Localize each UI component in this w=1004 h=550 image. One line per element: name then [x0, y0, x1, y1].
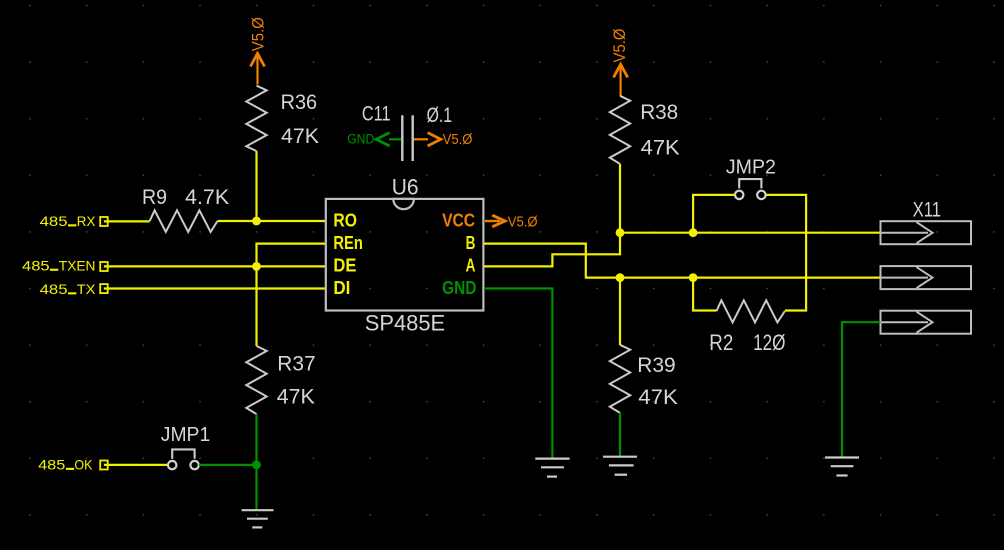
ground R39	[603, 457, 637, 475]
svg-text:R9: R9	[142, 185, 167, 209]
junction at DE line	[252, 262, 261, 271]
svg-text:DI: DI	[333, 278, 350, 298]
wire R39 top	[619, 278, 621, 345]
wire REn jog	[257, 244, 326, 267]
wire A jog up to top line	[484, 233, 620, 267]
C11 GND arrow	[376, 133, 401, 146]
net label 485_RX	[40, 213, 108, 229]
svg-text:X11: X11	[913, 198, 941, 222]
X11 pin 3	[881, 311, 972, 334]
svg-text:R39: R39	[637, 353, 675, 377]
wire R37 bottom green to ground	[255, 414, 257, 510]
svg-text:RX: RX	[77, 213, 96, 229]
junction B line R39	[616, 273, 625, 282]
wire 485_RX to R9	[104, 220, 150, 222]
svg-text:RO: RO	[333, 211, 357, 231]
svg-text:A: A	[466, 256, 476, 276]
net label 485_TXEN	[22, 257, 108, 273]
X11 pin 2	[881, 266, 972, 289]
resistor R37	[246, 346, 315, 414]
C11 V5.0 arrow	[414, 133, 441, 146]
wire R2 left to B line	[693, 278, 716, 311]
svg-text:REn: REn	[333, 233, 363, 253]
svg-text:B: B	[466, 233, 476, 253]
wire JMP2 left to top line	[693, 195, 734, 233]
wire R9 to RO	[218, 220, 326, 222]
svg-text:V5.Ø: V5.Ø	[508, 214, 538, 230]
wire 485_OK to JMP1	[104, 464, 167, 466]
wire top line to X11 pin 1	[620, 232, 881, 234]
svg-text:R2: R2	[709, 330, 733, 355]
capacitor C11 plates	[362, 102, 452, 162]
resistor R39	[610, 345, 679, 413]
svg-text:Ø.1: Ø.1	[427, 103, 452, 127]
svg-text:GND: GND	[442, 278, 476, 298]
resistor R36	[246, 86, 319, 151]
wire R36 bottom to RO junction	[255, 151, 257, 221]
svg-text:JMP1: JMP1	[161, 423, 210, 446]
svg-text:VCC: VCC	[442, 211, 475, 231]
ground chip GND	[535, 459, 569, 477]
svg-text:V5.Ø: V5.Ø	[443, 132, 473, 148]
IC U6 chip body	[326, 174, 484, 335]
svg-text:TXEN: TXEN	[59, 257, 96, 273]
svg-text:485: 485	[40, 213, 68, 229]
svg-text:OK: OK	[74, 457, 93, 473]
svg-text:R36: R36	[281, 90, 318, 114]
svg-text:485: 485	[22, 257, 50, 273]
svg-text:12Ø: 12Ø	[753, 330, 785, 355]
ground X11	[825, 458, 859, 476]
VCC supply arrow V5.0	[485, 215, 505, 227]
wire 485_TXEN to DE	[104, 265, 326, 267]
net label 485_OK	[38, 457, 108, 473]
wire R39 bottom to ground	[619, 413, 621, 457]
svg-text:47K: 47K	[277, 385, 316, 409]
svg-text:R37: R37	[277, 352, 315, 376]
svg-text:485: 485	[40, 281, 68, 297]
junction JMP2 left	[689, 228, 698, 237]
wire JMP1 right to junction	[199, 464, 257, 466]
ground JMP1	[242, 510, 274, 527]
svg-text:V5.Ø: V5.Ø	[610, 29, 629, 63]
svg-text:C11: C11	[362, 102, 391, 126]
svg-text:DE: DE	[333, 256, 356, 276]
svg-text:47K: 47K	[281, 124, 320, 148]
jumper JMP1	[161, 423, 210, 470]
supply V5.0 symbol above R38	[614, 64, 628, 96]
wire X11 pin3 to ground	[842, 322, 881, 457]
wire GND pin to ground	[484, 289, 552, 459]
wire 485_TX to DI	[104, 287, 326, 289]
resistor R38	[610, 96, 681, 164]
svg-text:4.7K: 4.7K	[185, 185, 230, 209]
X11 pin 1	[881, 221, 972, 244]
wire B jog to lower line	[484, 244, 881, 278]
junction green JMP1	[252, 461, 261, 470]
svg-text:47K: 47K	[638, 385, 678, 409]
svg-text:SP485E: SP485E	[365, 311, 446, 336]
net label 485_TX	[40, 281, 108, 297]
supply V5.0 symbol above R36	[250, 53, 264, 85]
wire JMP2 right down to R2 right	[766, 195, 806, 311]
junction R2 left	[689, 273, 698, 282]
svg-text:U6: U6	[392, 174, 419, 199]
svg-text:R38: R38	[640, 100, 678, 124]
jumper JMP2	[726, 155, 776, 199]
wire R38 to junction	[619, 164, 621, 233]
svg-text:V5.Ø: V5.Ø	[248, 17, 267, 51]
svg-text:TX: TX	[77, 281, 96, 297]
svg-text:GND: GND	[347, 131, 374, 146]
resistor R9	[142, 185, 230, 232]
junction A line	[616, 228, 625, 237]
svg-text:47K: 47K	[641, 136, 681, 160]
wire DE junction down to R37	[255, 266, 257, 346]
junction at R36/R9/RO	[252, 217, 261, 226]
resistor R2	[709, 300, 785, 355]
svg-text:485: 485	[38, 457, 65, 473]
svg-text:JMP2: JMP2	[726, 155, 776, 178]
